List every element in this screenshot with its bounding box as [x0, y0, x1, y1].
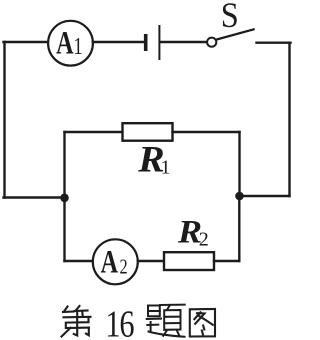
wire left vertical	[3, 42, 5, 198]
svg-text:1: 1	[105, 303, 120, 340]
wire battery to switch	[160, 41, 207, 43]
switch S blade	[216, 29, 253, 39]
svg-text:1: 1	[161, 157, 171, 179]
svg-text:A: A	[101, 244, 119, 281]
wire R1 branch right vertical	[238, 132, 240, 196]
caption character 图	[190, 309, 215, 337]
resistor R2	[164, 252, 214, 270]
wire R2 to bottom right vertical	[214, 260, 239, 262]
ammeter A1	[48, 21, 93, 66]
battery negative plate (short thick)	[144, 34, 148, 51]
wire R1 branch left horizontal	[65, 131, 123, 133]
wire R1 branch left vertical	[63, 132, 65, 198]
wire bottom branch right vertical	[238, 196, 240, 261]
svg-text:2: 2	[199, 229, 209, 251]
node B junction dot	[235, 192, 244, 201]
wire right horizontal to node B	[240, 195, 290, 197]
wire left horizontal to node A	[4, 196, 65, 198]
wire top left to ammeter A1	[4, 41, 49, 43]
wire bottom branch left vertical	[63, 198, 65, 262]
switch S pivot	[207, 38, 216, 47]
wire switch contact to right corner	[257, 42, 291, 44]
label R2	[177, 213, 209, 251]
caption character 第	[62, 306, 91, 337]
svg-text:2: 2	[120, 255, 128, 278]
wire right vertical	[288, 43, 290, 196]
wire A2 to R2	[138, 260, 164, 262]
wire bottom left horizontal to ammeter A2	[65, 260, 94, 262]
svg-text:1: 1	[73, 33, 82, 60]
svg-text:6: 6	[119, 303, 134, 340]
resistor R1	[123, 123, 173, 141]
battery positive plate (long thin)	[158, 26, 160, 59]
caption character 题	[147, 305, 185, 337]
caption text 16	[105, 303, 134, 340]
wire A1 to battery	[93, 41, 144, 43]
node A junction dot	[60, 194, 69, 203]
wire R1 branch right horizontal	[173, 131, 240, 133]
svg-text:S: S	[221, 0, 239, 36]
label R1	[137, 140, 170, 181]
ammeter A2	[93, 239, 138, 284]
svg-text:A: A	[56, 25, 74, 62]
